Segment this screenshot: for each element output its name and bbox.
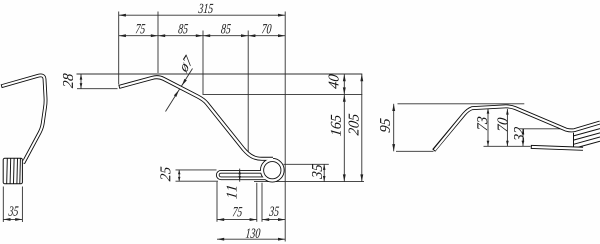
dim line 75 bottom xyxy=(217,219,257,221)
arrows 35 bottom xyxy=(262,218,269,221)
dim label 85 first xyxy=(178,24,188,33)
ext h y181.6 bottom right xyxy=(254,181,364,183)
arrows 32 xyxy=(522,129,525,135)
dim label 73 xyxy=(477,117,487,131)
right view ext h y146.3 xyxy=(484,145,531,147)
right view ext h top y103.8 xyxy=(398,103,525,105)
right view dim 32 v xyxy=(522,129,524,147)
main view wire white xyxy=(120,77,283,180)
right view tine xyxy=(531,147,583,149)
left view wire black xyxy=(1,75,45,163)
arrows 25 xyxy=(178,170,181,174)
ext h y74 xyxy=(77,73,363,75)
ext line v x285.2 xyxy=(284,12,286,242)
right view dim 95 v xyxy=(393,104,395,152)
dim label 32 xyxy=(514,127,524,142)
dim label 70 xyxy=(262,24,272,33)
dim 25 ext h bottom xyxy=(176,180,219,182)
arrows 95 xyxy=(392,104,395,111)
coil loop outline xyxy=(262,160,283,181)
ext v x256.8 xyxy=(256,183,258,222)
dim label 75 top xyxy=(136,24,146,33)
dim label 35 bottom xyxy=(269,207,279,216)
dim label 70 right view xyxy=(497,118,507,132)
ext line v x118.7 xyxy=(118,12,120,85)
dim label 28 xyxy=(63,73,73,88)
dim label 35 right xyxy=(312,164,322,179)
ext line v x203 xyxy=(202,31,204,95)
arrows 75 bottom xyxy=(217,218,224,221)
left view coil xyxy=(3,157,24,184)
dim line 35 bottom xyxy=(262,219,285,221)
hairpin tine fill xyxy=(218,172,266,179)
dim line 130 xyxy=(217,238,285,240)
dim label 130 xyxy=(246,228,261,237)
ext line v x158 xyxy=(157,12,159,74)
dim label 25 xyxy=(160,167,170,182)
hairpin tine outline xyxy=(218,172,266,179)
arrows 73 xyxy=(487,108,490,114)
arrows 35 left view xyxy=(3,218,10,221)
dim label 40 xyxy=(329,74,339,89)
dim label dia 7 xyxy=(182,54,191,73)
left view 35 ext v left xyxy=(2,187,4,223)
ext v x217 xyxy=(216,182,218,222)
left view 35 ext v right xyxy=(21,187,23,223)
arrows 28 xyxy=(80,74,83,80)
main wire arm outline xyxy=(119,77,273,159)
dim label 165 xyxy=(331,115,341,137)
ext v x262 xyxy=(261,183,263,222)
arrows 130 xyxy=(217,238,224,241)
dim label 85 second xyxy=(221,24,231,33)
ext h y94.6 xyxy=(203,94,363,96)
ext h y88.7 xyxy=(77,88,118,90)
arrows dia7 xyxy=(181,79,187,87)
coil loop fill xyxy=(262,160,283,181)
dim 40-165 v xyxy=(343,74,345,182)
dim line 75-85-85-70 xyxy=(119,35,286,37)
right view ext h y151.3 xyxy=(396,150,434,152)
dim label 315 xyxy=(198,4,213,13)
arrows 70 xyxy=(506,109,509,115)
right view dim 70 v xyxy=(506,109,508,146)
dim 28 v xyxy=(80,74,82,89)
ext h y164.3 right of circle xyxy=(284,163,329,165)
dim label 35 left view xyxy=(8,206,18,215)
dim 205 v xyxy=(361,74,363,182)
dim label 75 bottom xyxy=(233,207,243,216)
right view wire black xyxy=(434,106,600,150)
arrows 165 xyxy=(343,95,346,102)
right view dim 73 v xyxy=(487,108,489,146)
dim 35 right v xyxy=(323,164,325,181)
dim label 205 xyxy=(349,114,359,136)
arrows 40 xyxy=(343,74,346,81)
arrows 205 xyxy=(360,74,363,81)
ext line v x248.2 xyxy=(247,31,249,156)
right view coil turn lines xyxy=(574,129,600,150)
arrows 75/85/85/70 xyxy=(119,34,126,37)
dim line 315 xyxy=(119,14,286,16)
dim 25 v xyxy=(178,170,180,181)
arrows 315 xyxy=(119,14,126,17)
dim label 11 xyxy=(227,186,237,199)
right view ext h y128.8 xyxy=(519,128,574,130)
dim 25 ext h top xyxy=(176,169,217,171)
dim 11 over hairpin xyxy=(238,169,241,182)
arrows 35 right xyxy=(323,164,326,170)
left view dim 35 xyxy=(3,218,22,220)
dim label 95 xyxy=(380,118,390,133)
main wire arm fill xyxy=(120,77,273,159)
main view wire black xyxy=(119,77,283,180)
leader dia7 xyxy=(166,69,193,112)
